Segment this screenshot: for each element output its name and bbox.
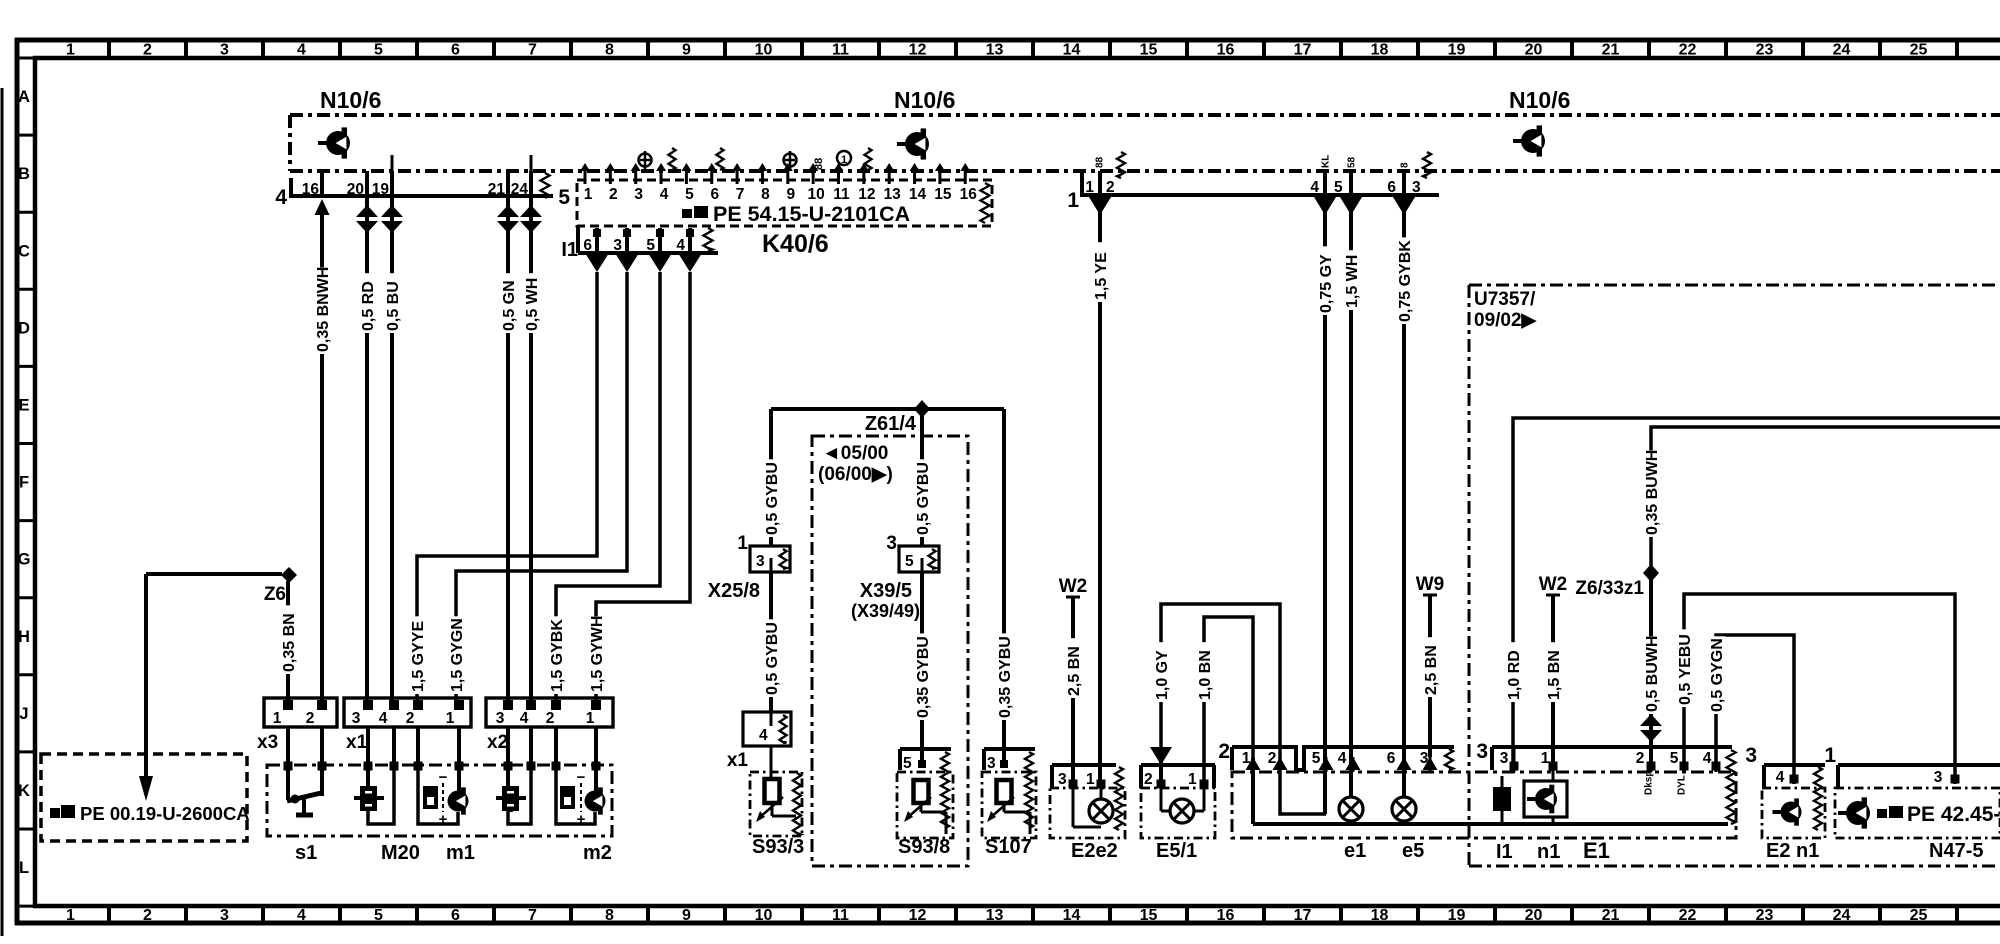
speaker icon in N10/6 left	[318, 127, 350, 158]
svg-text:24: 24	[1833, 907, 1851, 924]
svg-text:24: 24	[511, 181, 529, 198]
svg-text:0,75 GY: 0,75 GY	[1318, 254, 1335, 313]
svg-text:H: H	[18, 628, 30, 646]
capacitor I1 in E1	[1493, 776, 1513, 863]
svg-text:21: 21	[1602, 42, 1620, 59]
wire 0,5 YEBU	[1677, 594, 1955, 784]
label M20	[381, 842, 420, 864]
svg-text:8: 8	[605, 42, 614, 59]
I1 pin 4 arrow	[678, 253, 702, 272]
svg-text:S93/8: S93/8	[898, 836, 950, 858]
ground W2 (right)	[1539, 574, 1568, 595]
E1 ground bus	[1253, 758, 1728, 824]
ruler left letter band	[17, 58, 35, 906]
svg-text:14: 14	[1063, 42, 1081, 59]
connector I1 of K40/6	[561, 226, 718, 261]
svg-text:1: 1	[1541, 750, 1550, 767]
sensor S93/3	[750, 746, 804, 858]
svg-text:5: 5	[1312, 750, 1321, 767]
splice Z6/33z1	[1575, 564, 1659, 599]
svg-text:3: 3	[1058, 771, 1067, 788]
svg-text:1: 1	[1067, 189, 1079, 212]
label N10/6 (right)	[1509, 87, 1570, 113]
ruler bottom band	[66, 906, 1957, 924]
tiny label Dksp	[1644, 771, 1655, 795]
sensor S107	[982, 749, 1036, 858]
svg-text:4: 4	[1776, 769, 1785, 786]
lamp e1	[1339, 770, 1366, 862]
svg-text:A: A	[18, 88, 30, 106]
svg-text:19: 19	[1448, 42, 1466, 59]
sleeve on pin 19 wire	[381, 205, 403, 233]
svg-text:3: 3	[886, 533, 897, 554]
svg-text:1: 1	[841, 154, 847, 166]
svg-text:−: −	[439, 769, 448, 786]
tiny label DYL	[1677, 775, 1688, 795]
svg-text:5: 5	[1334, 179, 1343, 196]
svg-text:4: 4	[660, 186, 669, 203]
svg-text:16: 16	[1217, 42, 1235, 59]
svg-text:◄05/00: ◄05/00	[822, 443, 888, 464]
harness box PE 00.19-U-2600CA	[41, 754, 250, 841]
resistor in M20 (x2)	[496, 768, 531, 824]
svg-text:0,75 GYBK: 0,75 GYBK	[1397, 240, 1414, 322]
svg-text:N10/6: N10/6	[320, 87, 381, 113]
svg-text:21: 21	[1602, 907, 1620, 924]
wire 1,0 GY	[1154, 604, 1280, 784]
svg-text:E: E	[18, 396, 29, 414]
wire 0,35 BN from Z6 to x3	[281, 581, 298, 700]
svg-text:8: 8	[761, 186, 770, 203]
svg-text:17: 17	[1294, 907, 1312, 924]
svg-text:20: 20	[347, 181, 364, 198]
svg-text:5: 5	[905, 553, 914, 570]
wire 2,5 BN to E1 pin 3	[1423, 595, 1440, 757]
wire 1,5 WH	[1344, 196, 1361, 797]
svg-text:N47-5: N47-5	[1929, 840, 1983, 862]
svg-text:S93/3: S93/3	[752, 836, 804, 858]
connector 1 of N47-5	[1824, 744, 2000, 788]
svg-text:3: 3	[1500, 750, 1509, 767]
conn1 pin 4 arrow	[1314, 197, 1336, 215]
ground W9	[1416, 574, 1445, 595]
svg-text:3: 3	[987, 755, 996, 772]
svg-text:4: 4	[676, 237, 685, 254]
svg-text:14: 14	[909, 186, 927, 203]
svg-text:1,5 GYGN: 1,5 GYGN	[449, 618, 466, 692]
svg-text:5: 5	[646, 237, 655, 254]
svg-text:18: 18	[1371, 42, 1389, 59]
svg-text:Z6/33z1: Z6/33z1	[1575, 578, 1644, 599]
wire 0,5 BUWH	[1644, 580, 1661, 771]
svg-text:2: 2	[306, 710, 315, 727]
conn1 pin 6 arrow	[1393, 197, 1415, 215]
svg-text:0,35 BNWH: 0,35 BNWH	[315, 267, 332, 352]
svg-text:18: 18	[1371, 907, 1389, 924]
wire 0,5 GYBU left branch upper	[764, 409, 781, 546]
wire 0,5 BU	[385, 196, 402, 700]
heater control E1 connector 2	[1218, 740, 1454, 770]
svg-text:2: 2	[1268, 750, 1277, 767]
svg-text:0,5 GYBU: 0,5 GYBU	[915, 462, 932, 535]
svg-text:W2: W2	[1539, 574, 1568, 595]
E1 dash-dot box	[1232, 772, 1736, 838]
sleeve on pin 21 wire	[497, 205, 519, 233]
speaker icon in N10/6 middle	[897, 128, 929, 159]
connector x1 (S93/3)	[727, 712, 791, 771]
svg-text:2: 2	[609, 186, 618, 203]
svg-text:I1: I1	[561, 239, 578, 261]
svg-text:8: 8	[605, 907, 614, 924]
svg-text:(X39/49): (X39/49)	[851, 601, 920, 621]
svg-text:3: 3	[1934, 769, 1943, 786]
svg-text:E5/1: E5/1	[1156, 840, 1197, 862]
svg-text:E2 n1: E2 n1	[1766, 840, 1819, 862]
svg-text:16: 16	[960, 186, 978, 203]
svg-text:1,5 YE: 1,5 YE	[1093, 252, 1110, 300]
svg-text:11: 11	[833, 186, 850, 203]
svg-text:S107: S107	[985, 836, 1032, 858]
wire 1,5 GYGN	[449, 272, 627, 700]
svg-text:+: +	[439, 811, 448, 828]
svg-text:1,5 BN: 1,5 BN	[1546, 650, 1563, 700]
svg-text:20: 20	[1525, 42, 1543, 59]
svg-text:4: 4	[297, 42, 306, 59]
svg-text:e5: e5	[1402, 840, 1424, 862]
I1 pin 3 arrow	[615, 253, 639, 272]
variant box U7357	[1469, 285, 2000, 866]
svg-text:1,0 GY: 1,0 GY	[1154, 650, 1171, 700]
svg-text:15: 15	[1140, 907, 1158, 924]
svg-text:88: 88	[813, 158, 825, 170]
svg-text:3: 3	[352, 710, 361, 727]
svg-text:3: 3	[1745, 744, 1757, 767]
svg-text:X25/8: X25/8	[708, 580, 760, 602]
svg-text:PE 42.45-U: PE 42.45-U	[1907, 803, 2000, 826]
svg-text:12: 12	[858, 186, 875, 203]
ground W2 (left)	[1059, 576, 1088, 597]
svg-text:4: 4	[379, 710, 388, 727]
svg-text:(06/00▶): (06/00▶)	[818, 464, 893, 485]
svg-text:6: 6	[710, 186, 719, 203]
svg-text:0,5 BU: 0,5 BU	[385, 281, 402, 331]
wire 1,5 YE	[1093, 196, 1110, 780]
svg-text:21: 21	[488, 181, 506, 198]
svg-text:0,5 GYBU: 0,5 GYBU	[764, 622, 781, 695]
svg-text:X39/5: X39/5	[860, 580, 912, 602]
svg-text:+: +	[577, 811, 586, 828]
svg-text:20: 20	[1525, 907, 1543, 924]
sleeve on pin 24 wire	[520, 205, 542, 233]
svg-text:L: L	[19, 859, 29, 877]
lamp e5	[1392, 770, 1424, 862]
svg-text:0,35 BN: 0,35 BN	[281, 613, 298, 672]
wire 0,5 GYBU left branch lower	[764, 572, 781, 712]
svg-text:J: J	[19, 705, 28, 723]
E1 pin triangles (connector 2)	[1246, 757, 1438, 772]
svg-text:0,35 BUWH: 0,35 BUWH	[1644, 450, 1661, 535]
splice Z61/4	[771, 400, 1004, 435]
svg-text:0,5 BUWH: 0,5 BUWH	[1644, 636, 1661, 712]
svg-text:U7357/: U7357/	[1474, 289, 1536, 310]
svg-text:2: 2	[1636, 750, 1645, 767]
connector x3	[257, 698, 337, 753]
svg-text:x1: x1	[727, 750, 749, 771]
svg-text:m1: m1	[446, 842, 475, 864]
control unit N47-5 box	[1835, 788, 2000, 862]
svg-text:1: 1	[737, 533, 748, 554]
svg-text:9: 9	[786, 186, 795, 203]
tiny symbols above K40/6 pins	[639, 148, 872, 170]
svg-text:5: 5	[1670, 750, 1679, 767]
connector x1	[344, 698, 471, 753]
svg-text:x1: x1	[346, 732, 368, 753]
connector 4 of N10/6	[275, 155, 553, 209]
wire 1,5 GYYE	[410, 272, 597, 700]
svg-text:PE 00.19-U-2600CA: PE 00.19-U-2600CA	[80, 803, 250, 824]
lamp unit E5/1	[1141, 765, 1215, 862]
resistor in M20 (x1)	[354, 768, 394, 824]
svg-text:1: 1	[1188, 771, 1197, 788]
svg-text:3: 3	[220, 42, 229, 59]
svg-text:1,0 RD: 1,0 RD	[1506, 650, 1523, 700]
svg-text:Z61/4: Z61/4	[865, 413, 917, 435]
connector X25/8	[708, 533, 790, 602]
connector 3 of E2	[1745, 744, 1825, 830]
svg-text:n1: n1	[1537, 841, 1560, 863]
label E1	[1583, 838, 1610, 863]
heater unit M20 box	[267, 765, 612, 836]
svg-text:0,5 WH: 0,5 WH	[524, 278, 541, 331]
svg-text:PE 54.15-U-2101CA: PE 54.15-U-2101CA	[713, 202, 910, 226]
blower switch illumination E2e2	[1050, 765, 1125, 862]
svg-text:3: 3	[756, 553, 765, 570]
svg-text:13: 13	[986, 907, 1004, 924]
svg-text:7: 7	[528, 42, 537, 59]
svg-text:N10/6: N10/6	[894, 87, 955, 113]
svg-text:12: 12	[909, 907, 927, 924]
svg-text:4: 4	[275, 186, 287, 209]
svg-text:88: 88	[1095, 156, 1106, 168]
svg-text:F: F	[19, 474, 29, 492]
heated rear window E2 n1 box	[1762, 788, 1825, 862]
svg-text:E1: E1	[1583, 838, 1610, 863]
svg-text:1: 1	[1086, 771, 1095, 788]
wire 1,5 GYBK	[549, 272, 660, 700]
svg-text:17: 17	[1294, 42, 1312, 59]
svg-text:4: 4	[759, 727, 768, 744]
I1 pin 5 arrow	[648, 253, 672, 272]
svg-text:10: 10	[808, 186, 825, 203]
svg-text:9: 9	[682, 907, 691, 924]
svg-text:4: 4	[297, 907, 306, 924]
wire 1,5 BN	[1546, 595, 1563, 771]
svg-text:2,5 BN: 2,5 BN	[1066, 646, 1083, 696]
svg-text:6: 6	[451, 42, 460, 59]
svg-text:x3: x3	[257, 732, 278, 753]
svg-text:13: 13	[986, 42, 1004, 59]
svg-text:23: 23	[1756, 907, 1774, 924]
svg-text:22: 22	[1679, 42, 1697, 59]
svg-text:25: 25	[1910, 907, 1928, 924]
I1 pin 6 arrow	[585, 253, 609, 272]
svg-text:1,5 WH: 1,5 WH	[1344, 255, 1361, 308]
svg-text:8: 8	[1400, 162, 1411, 168]
E1 internal wire pin2-pin5	[1280, 758, 1326, 814]
svg-text:1: 1	[273, 710, 282, 727]
motor m2	[556, 768, 612, 864]
svg-text:4: 4	[1338, 750, 1347, 767]
svg-text:x2: x2	[487, 732, 508, 753]
svg-text:1: 1	[586, 710, 595, 727]
wire 0,5 WH	[524, 196, 541, 700]
svg-text:15: 15	[934, 186, 952, 203]
svg-text:0,5 YEBU: 0,5 YEBU	[1677, 634, 1694, 705]
svg-text:1,5 GYWH: 1,5 GYWH	[589, 616, 606, 692]
svg-text:3: 3	[613, 237, 622, 254]
svg-text:1: 1	[446, 710, 455, 727]
svg-text:5: 5	[374, 42, 383, 59]
svg-text:14: 14	[1063, 907, 1081, 924]
wire 1,0 RD	[1506, 418, 2000, 771]
svg-text:5: 5	[903, 755, 912, 772]
svg-text:e1: e1	[1344, 840, 1366, 862]
wire 0,5 GYBU middle branch	[915, 415, 932, 546]
svg-text:11: 11	[832, 42, 849, 59]
svg-text:6: 6	[1387, 750, 1396, 767]
conn1 pin 1 arrow	[1089, 197, 1111, 215]
svg-text:5: 5	[374, 907, 383, 924]
svg-text:4: 4	[1703, 750, 1712, 767]
wire 0,5 RD	[360, 196, 377, 700]
wire 1,5 GYWH	[589, 272, 690, 700]
wire 0,35 BUWH with splice Z6/33z1	[1644, 427, 2000, 566]
svg-text:Dksp: Dksp	[1644, 771, 1655, 795]
svg-text:1,0 BN: 1,0 BN	[1197, 650, 1214, 700]
svg-text:2: 2	[1144, 771, 1153, 788]
svg-text:0,35 GYBU: 0,35 GYBU	[997, 636, 1014, 718]
svg-text:W2: W2	[1059, 576, 1088, 597]
wire 0,5 GN	[501, 196, 518, 700]
svg-text:K: K	[18, 782, 30, 800]
svg-text:10: 10	[755, 907, 773, 924]
svg-text:5: 5	[685, 186, 694, 203]
wire 1,0 BN	[1197, 617, 1253, 784]
svg-text:N10/6: N10/6	[1509, 87, 1570, 113]
svg-text:2,5 BN: 2,5 BN	[1423, 645, 1440, 695]
svg-text:D: D	[18, 319, 30, 337]
svg-text:1: 1	[66, 42, 75, 59]
svg-text:2: 2	[143, 42, 152, 59]
svg-text:16: 16	[1217, 907, 1235, 924]
svg-text:13: 13	[884, 186, 902, 203]
svg-text:1: 1	[1824, 744, 1836, 767]
svg-text:2: 2	[1218, 740, 1230, 763]
svg-text:1: 1	[584, 186, 593, 203]
svg-text:3: 3	[634, 186, 643, 203]
sleeve on 0,5 BUWH	[1640, 714, 1662, 742]
svg-text:58: 58	[1347, 156, 1358, 168]
svg-text:23: 23	[1756, 42, 1774, 59]
svg-text:24: 24	[1833, 42, 1851, 59]
svg-text:15: 15	[1140, 42, 1158, 59]
svg-text:KL: KL	[1321, 155, 1332, 168]
wire Z6 to harness arrow	[139, 574, 282, 801]
svg-text:6: 6	[451, 907, 460, 924]
svg-text:5: 5	[558, 186, 570, 209]
svg-text:4: 4	[1310, 179, 1319, 196]
blower motor n1 in E1	[1524, 772, 1567, 863]
speaker icon in N10/6 right	[1513, 125, 1545, 156]
svg-text:22: 22	[1679, 907, 1697, 924]
svg-text:4: 4	[520, 710, 529, 727]
svg-text:25: 25	[1910, 42, 1928, 59]
sensor S93/8	[897, 749, 953, 858]
wire 0,35 GYBU middle branch	[915, 572, 932, 762]
svg-text:0,5 GN: 0,5 GN	[501, 280, 518, 331]
svg-text:7: 7	[528, 907, 537, 924]
page left edge line	[1, 88, 4, 936]
motor m1	[418, 768, 475, 864]
wires x3/x1/x2 into M20	[284, 727, 601, 771]
svg-text:1,5 GYYE: 1,5 GYYE	[410, 621, 427, 692]
svg-text:I1: I1	[1496, 841, 1513, 863]
svg-text:C: C	[18, 242, 30, 260]
fuse/relay module K40/6 connector 5 box	[558, 163, 992, 226]
svg-text:11: 11	[832, 907, 849, 924]
svg-text:2: 2	[1106, 179, 1115, 196]
label K40/6	[762, 230, 829, 258]
wire 0,75 GYBK	[1397, 196, 1414, 797]
svg-text:16: 16	[302, 181, 320, 198]
arrow on 1,0 GY	[1150, 747, 1172, 765]
svg-text:Z6: Z6	[264, 584, 286, 605]
svg-text:−: −	[577, 769, 586, 786]
svg-text:3: 3	[496, 710, 505, 727]
label PE 54.15-U-2101CA	[682, 202, 910, 226]
svg-text:1,5 GYBK: 1,5 GYBK	[549, 619, 566, 692]
svg-text:12: 12	[909, 42, 927, 59]
svg-text:2: 2	[406, 710, 415, 727]
svg-text:s1: s1	[295, 842, 317, 864]
svg-text:G: G	[18, 551, 31, 569]
svg-text:3: 3	[220, 907, 229, 924]
svg-text:E2e2: E2e2	[1071, 840, 1118, 862]
svg-text:10: 10	[755, 42, 773, 59]
svg-text:19: 19	[1448, 907, 1466, 924]
svg-text:0,5 GYBU: 0,5 GYBU	[764, 462, 781, 535]
svg-text:9: 9	[682, 42, 691, 59]
svg-text:0,35 GYBU: 0,35 GYBU	[915, 636, 932, 718]
svg-text:1: 1	[66, 907, 75, 924]
connector 1 of N10/6	[1067, 152, 1439, 212]
ruler top band	[66, 40, 1957, 59]
sleeve on pin 20 wire	[356, 205, 378, 233]
svg-text:2: 2	[546, 710, 555, 727]
heater control E1 connector 3	[1476, 740, 1735, 824]
svg-text:0,5 GYGN: 0,5 GYGN	[1709, 638, 1726, 712]
svg-text:3: 3	[1476, 740, 1488, 763]
switch s1	[287, 768, 322, 864]
svg-text:2: 2	[143, 907, 152, 924]
wire 0,35 BNWH	[315, 212, 332, 700]
conn1 pin 5 arrow	[1340, 197, 1362, 215]
connector X39/5	[851, 533, 939, 621]
pin 16 arrow	[315, 199, 330, 215]
variant box 05/00	[812, 436, 968, 866]
connector x2	[486, 698, 613, 753]
svg-text:7: 7	[736, 186, 745, 203]
